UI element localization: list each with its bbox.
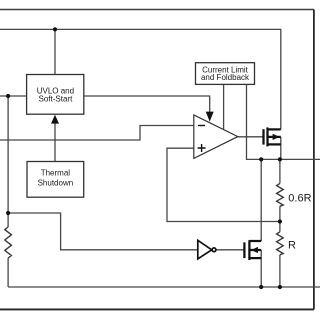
svg-text:and Foldback: and Foldback — [201, 73, 250, 82]
svg-text:R: R — [288, 240, 296, 252]
svg-text:Soft-Start: Soft-Start — [39, 94, 74, 103]
svg-text:Shutdown: Shutdown — [38, 178, 74, 187]
svg-text:0.6R: 0.6R — [288, 192, 311, 204]
svg-text:Thermal: Thermal — [41, 168, 71, 177]
